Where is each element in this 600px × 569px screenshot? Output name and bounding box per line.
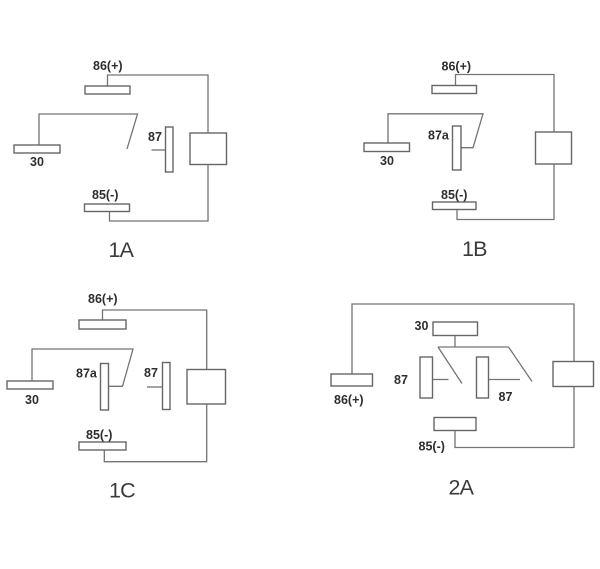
svg-text:87: 87	[394, 373, 408, 387]
svg-text:1C: 1C	[109, 479, 135, 503]
svg-text:87a: 87a	[428, 129, 450, 143]
svg-text:85(-): 85(-)	[441, 188, 467, 202]
svg-text:1B: 1B	[462, 237, 487, 261]
svg-text:85(-): 85(-)	[92, 188, 118, 202]
svg-text:86(+): 86(+)	[442, 60, 472, 74]
svg-text:87a: 87a	[76, 367, 98, 381]
svg-text:85(-): 85(-)	[419, 440, 445, 454]
svg-text:30: 30	[25, 393, 39, 407]
svg-text:87: 87	[144, 366, 158, 380]
svg-text:1A: 1A	[109, 238, 135, 262]
svg-text:85(-): 85(-)	[86, 428, 112, 442]
svg-text:87: 87	[499, 390, 513, 404]
svg-text:86(+): 86(+)	[334, 393, 364, 407]
svg-text:86(+): 86(+)	[93, 59, 123, 73]
svg-text:30: 30	[415, 319, 429, 333]
svg-text:30: 30	[380, 154, 394, 168]
svg-text:87: 87	[148, 130, 162, 144]
svg-text:30: 30	[30, 155, 44, 169]
svg-text:2A: 2A	[449, 476, 475, 500]
svg-text:86(+): 86(+)	[88, 292, 118, 306]
